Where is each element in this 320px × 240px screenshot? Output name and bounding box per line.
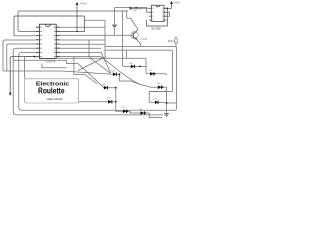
IC U1 pins ticks: [149, 8, 166, 20]
svg-text:N4148: N4148: [139, 109, 143, 111]
IC U2 CD4017 body: [40, 24, 57, 58]
wire left pin y=44: [7, 44, 36, 71]
diode DE: [102, 84, 107, 90]
wire pin8 stub: [10, 57, 36, 93]
junction dot DA: [139, 66, 141, 68]
wire 100k row: [175, 37, 177, 47]
ground gnd2: [164, 114, 169, 117]
diode DH: [121, 107, 126, 113]
svg-text:N4148: N4148: [154, 98, 158, 100]
svg-text:N4148: N4148: [102, 84, 106, 86]
power arrow +4.5v right: [170, 1, 173, 4]
wire right pin y=40: [59, 20, 141, 56]
svg-text:100kΩ: 100kΩ: [168, 40, 174, 43]
svg-text:10kΩ: 10kΩ: [138, 9, 142, 11]
wire emitter rail right: [137, 39, 177, 110]
svg-text:+4.5v: +4.5v: [174, 1, 181, 5]
wire DG out: [112, 101, 116, 103]
junction dot DC: [119, 73, 121, 75]
junction dot 555 pin8: [166, 7, 168, 9]
wire DI out tail: [144, 113, 162, 118]
resistor R3 100k: [174, 39, 177, 43]
wire right pin y=27: [59, 26, 105, 28]
junction dot DE: [115, 87, 117, 89]
transistor Q1: [131, 32, 138, 40]
wire left pin y=40: [3, 40, 113, 74]
svg-text:Adam Munich: Adam Munich: [47, 97, 63, 101]
junction dot +4.5 join: [76, 31, 78, 33]
wire DH out: [127, 111, 141, 113]
svg-text:+4.5v: +4.5v: [80, 2, 88, 6]
IC U1 NE555 body: [152, 5, 165, 21]
junction dot DD: [162, 86, 164, 88]
wire 555 right pins: [167, 12, 170, 16]
IC U2 pin numbers: [40, 27, 55, 57]
wire outer top loop y=16 dark: [14, 16, 85, 36]
wire right pin y=52 steep diag: [59, 52, 111, 72]
svg-text:N4148: N4148: [107, 98, 111, 100]
diode DD: [157, 83, 162, 89]
junction dot gnd2 top: [166, 102, 168, 104]
wire DF feed: [149, 92, 155, 103]
wire x=89 drop diag: [89, 40, 111, 73]
wire x=73.9 drop: [74, 57, 97, 84]
diode DF: [154, 98, 159, 104]
wire DB out: [154, 74, 167, 76]
wire y=58 long to DB feed: [57, 58, 150, 74]
resistor R1: [130, 8, 132, 10]
wire DC out col: [116, 74, 140, 84]
diode DG: [107, 98, 112, 104]
svg-text:NE 555P: NE 555P: [151, 27, 161, 31]
junction dot DB: [154, 73, 156, 75]
wire y=60 branch: [13, 60, 104, 87]
wire DG in long: [79, 101, 108, 103]
wire right pin y=44 to DA: [59, 11, 131, 66]
wire transistor base diag: [127, 11, 138, 29]
title block box: [25, 79, 79, 103]
diode DA: [129, 63, 135, 68]
svg-text:CD4017B: CD4017B: [45, 61, 55, 64]
wire DD out: [162, 87, 167, 113]
wire DE out column: [107, 88, 123, 112]
wire IC bottom corners: [42, 64, 67, 68]
svg-text:N4148: N4148: [129, 63, 133, 65]
wire y=91.6: [149, 91, 166, 93]
diode DB: [149, 70, 154, 76]
IC U1 pin numbers: [152, 8, 163, 20]
power arrow +4.5v left: [76, 2, 79, 5]
power arrow down bottom-left: [9, 93, 12, 96]
svg-text:N4148: N4148: [149, 70, 153, 72]
diode DC: [111, 71, 116, 76]
wire gnd1 drop: [114, 8, 116, 36]
wire 555 pin2 loop dark: [147, 8, 168, 26]
svg-text:N4148: N4148: [121, 107, 125, 109]
wire top bus y=7.5: [115, 8, 147, 13]
junction dot DI: [144, 112, 146, 114]
wire +4.5v stem right: [167, 4, 172, 9]
wire rising diag: [78, 57, 106, 71]
wire right pin y=48: [59, 48, 173, 91]
wire inner top loop y=11: [18, 11, 128, 31]
wire left pin y=52 bottom loop: [19, 52, 175, 110]
wire right pin y=35.5: [59, 34, 133, 36]
wire left pin y=56 to title: [24, 57, 36, 79]
wire right pin y=56 diag to DD: [59, 57, 158, 88]
junction dot pin8: [34, 56, 36, 58]
wire DF out to gnd col: [158, 102, 176, 104]
IC U2 pins right ticks: [56, 27, 60, 56]
ground gnd1: [112, 25, 117, 27]
junction dot bus: [129, 7, 131, 9]
wire DA out: [135, 65, 146, 67]
resistor R2: [135, 7, 137, 9]
junction dot DG: [115, 101, 117, 103]
wire resistors to 555: [132, 7, 150, 9]
wire transistor collector: [136, 29, 138, 31]
svg-text:Roulette: Roulette: [38, 87, 65, 96]
junction dot DH: [126, 110, 128, 112]
wire +4.5v stem left: [76, 4, 78, 31]
wire left pin y=48 bottom loop: [13, 48, 163, 115]
svg-text:C945: C945: [141, 38, 148, 41]
IC U2 pins left ticks: [36, 27, 40, 56]
diode DI: [139, 109, 145, 115]
svg-text:N4148: N4148: [111, 71, 115, 73]
svg-text:10kΩ: 10kΩ: [132, 10, 137, 12]
svg-text:N4148: N4148: [157, 83, 161, 85]
